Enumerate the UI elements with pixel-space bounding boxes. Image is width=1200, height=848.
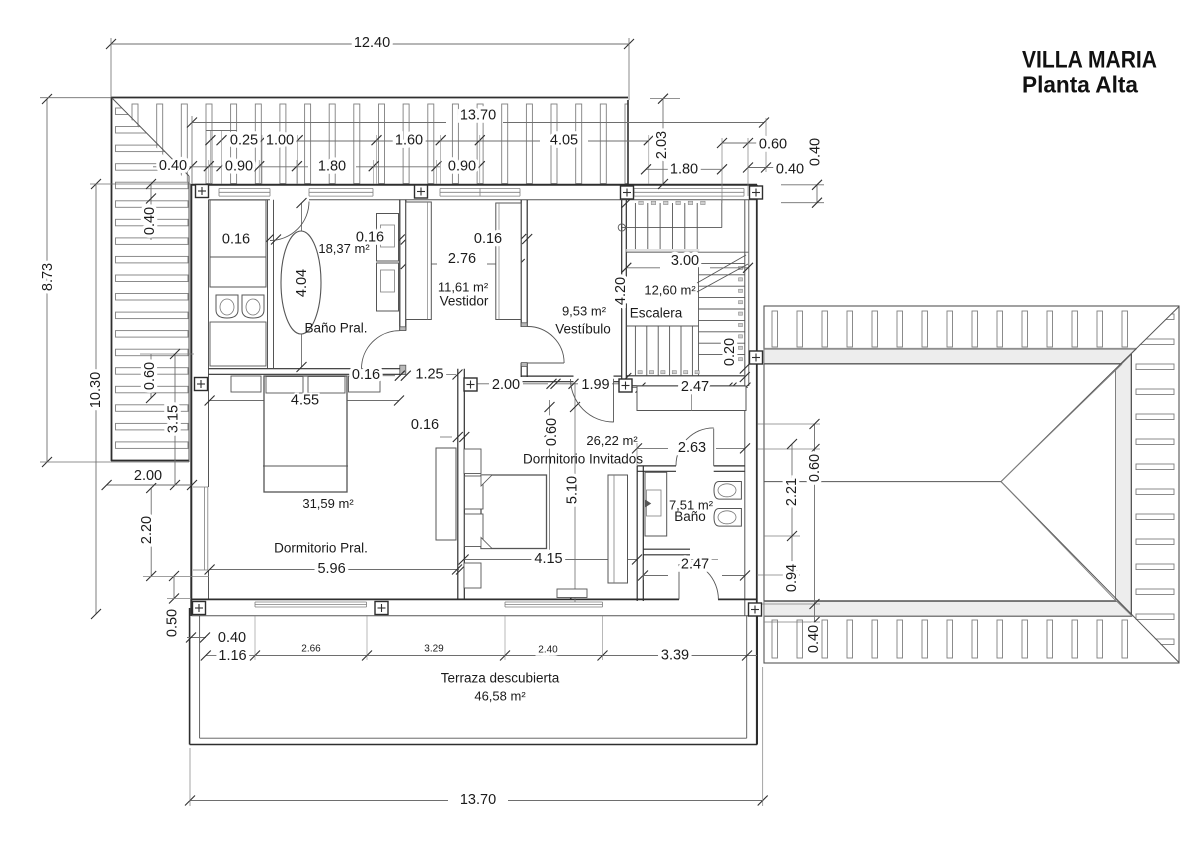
closet invitados north <box>637 386 746 411</box>
svg-text:0.40: 0.40 <box>159 158 187 174</box>
door vestibulo south <box>613 379 615 423</box>
svg-text:0.60: 0.60 <box>759 136 787 152</box>
wall banyo pral south <box>209 368 401 370</box>
svg-text:2.21: 2.21 <box>784 478 800 506</box>
dim 10.30 left <box>95 184 97 614</box>
svg-text:12.40: 12.40 <box>354 35 390 51</box>
survey boxes <box>196 185 209 198</box>
hip roof eaves gray strip top <box>764 349 1136 363</box>
svg-text:0.25: 0.25 <box>230 132 258 148</box>
svg-text:0.90: 0.90 <box>448 158 476 174</box>
svg-text:11,61 m²: 11,61 m² <box>438 279 489 294</box>
closet invitados east <box>608 475 628 583</box>
bench invitados south <box>557 589 587 598</box>
hip roof hips <box>1001 307 1179 482</box>
svg-text:0.60: 0.60 <box>807 454 823 482</box>
hip roof inner wall lines <box>764 363 1122 365</box>
door banyo pral north <box>270 202 309 241</box>
dim 0.16 / 1.25 row <box>377 375 395 377</box>
window south 1 <box>255 601 367 603</box>
svg-text:1.80: 1.80 <box>670 161 698 177</box>
banyo pral wc and bidet <box>216 295 238 318</box>
svg-text:0.60: 0.60 <box>544 418 560 446</box>
dim row1 north <box>206 130 237 132</box>
svg-text:1.25: 1.25 <box>415 367 443 383</box>
svg-text:4.55: 4.55 <box>291 393 319 409</box>
svg-text:Escalera: Escalera <box>630 306 683 321</box>
hip roof bottom joist band <box>772 620 1128 658</box>
dim 0.20 escalera wall <box>744 360 746 378</box>
wall vestibulo / escalera <box>621 200 623 386</box>
wall banyo guests south <box>643 548 690 550</box>
svg-text:4.05: 4.05 <box>550 132 578 148</box>
wall divider dormitorios <box>457 369 459 599</box>
svg-text:0.16: 0.16 <box>352 367 380 383</box>
dim 3.00 escalera <box>626 267 660 269</box>
window north 2 <box>309 188 373 190</box>
window west wall <box>193 487 208 570</box>
banyo pral vanity counter <box>210 200 266 257</box>
svg-text:1.99: 1.99 <box>581 377 609 393</box>
svg-text:1.00: 1.00 <box>266 132 294 148</box>
svg-text:2.66: 2.66 <box>301 644 321 655</box>
svg-text:1.60: 1.60 <box>395 132 423 148</box>
svg-text:Vestidor: Vestidor <box>440 294 489 309</box>
svg-text:31,59 m²: 31,59 m² <box>302 496 354 511</box>
nightstands dormitorio pral <box>231 376 261 392</box>
ext lines north dims <box>209 131 211 184</box>
bed dormitorio invitados <box>481 475 547 549</box>
wall escalera south <box>626 375 745 377</box>
hip roof outline (right) <box>764 306 1179 663</box>
vestidor closet west <box>406 202 432 320</box>
banyo pral shower column <box>377 214 399 262</box>
dim 5.10 invitados vertical <box>574 382 576 602</box>
svg-text:Dormitorio Invitados: Dormitorio Invitados <box>523 452 643 467</box>
svg-text:1.80: 1.80 <box>318 158 346 174</box>
svg-text:18,37 m²: 18,37 m² <box>318 241 370 256</box>
svg-text:8.73: 8.73 <box>40 263 56 291</box>
stair winder treads right <box>699 262 745 264</box>
svg-text:5.96: 5.96 <box>317 561 345 577</box>
svg-text:2.63: 2.63 <box>678 440 706 456</box>
dim 0.60 corridor vertical <box>549 400 551 556</box>
vanity partition banyo pral <box>267 200 269 368</box>
window north 1 <box>219 188 270 190</box>
svg-text:Vestíbulo: Vestíbulo <box>555 322 611 337</box>
wall banyo guests west <box>636 466 638 602</box>
svg-text:13.70: 13.70 <box>460 107 496 123</box>
dim 2.03 right top <box>662 99 664 184</box>
svg-text:Planta Alta: Planta Alta <box>1022 72 1138 98</box>
door terrace alcove <box>678 560 680 599</box>
svg-text:10.30: 10.30 <box>88 372 104 408</box>
hip roof ridge <box>764 481 1001 483</box>
svg-text:2.00: 2.00 <box>492 377 520 393</box>
roof overhang outline top-left <box>111 97 628 99</box>
roof miter diagonal top-left <box>112 98 190 177</box>
wall banyo pral / vestidor <box>399 200 401 331</box>
dim 3.15 left vertical <box>174 354 176 485</box>
window north 5 (escalera) <box>634 188 744 190</box>
svg-text:13.70: 13.70 <box>460 792 496 808</box>
svg-text:26,22 m²: 26,22 m² <box>586 433 638 448</box>
svg-text:Dormitorio Pral.: Dormitorio Pral. <box>274 541 368 556</box>
svg-text:3.15: 3.15 <box>165 405 181 433</box>
dim 2.00 left <box>107 484 192 486</box>
svg-text:3.39: 3.39 <box>661 647 689 663</box>
svg-text:12,60 m²: 12,60 m² <box>644 282 696 297</box>
vestidor closet east <box>496 203 521 320</box>
terraza parapet <box>189 608 191 745</box>
dim 0.40 left wall vertical <box>150 184 152 240</box>
svg-text:3.29: 3.29 <box>424 644 444 655</box>
dim 13.70 upper <box>192 122 446 124</box>
stair cut marks <box>697 255 746 283</box>
stair landing edge <box>626 249 699 252</box>
svg-text:0.40: 0.40 <box>776 162 804 178</box>
stair escalera upper flight treads <box>634 203 636 252</box>
svg-text:4.04: 4.04 <box>294 269 310 297</box>
banyo pral bathtub <box>281 231 321 334</box>
exterior wall south <box>192 598 680 600</box>
dim 8.73 left <box>46 99 48 462</box>
stair lower flight treads <box>626 325 698 327</box>
dim 2.76 vestidor <box>406 263 437 265</box>
stair handrail <box>622 227 722 229</box>
exterior wall west <box>190 184 192 616</box>
window south 2 <box>505 601 603 603</box>
svg-text:0.40: 0.40 <box>806 625 822 653</box>
hip roof top joist band <box>772 311 1128 347</box>
dim 0.50 left vertical <box>173 576 175 599</box>
svg-text:0.40: 0.40 <box>142 207 158 235</box>
svg-text:2.00: 2.00 <box>134 468 162 484</box>
door vestibulo west <box>527 362 564 364</box>
svg-text:VILLA MARIA: VILLA MARIA <box>1022 46 1157 73</box>
dim 12.40 top <box>111 43 352 45</box>
wall vestidor / vestibulo <box>520 200 522 327</box>
svg-text:2.76: 2.76 <box>448 251 476 267</box>
banyo guests wc and bidet <box>714 482 741 500</box>
window north 3 <box>440 188 520 190</box>
dim 2.63 banyo guests <box>637 447 668 449</box>
svg-text:9,53 m²: 9,53 m² <box>562 303 607 318</box>
svg-text:0.20: 0.20 <box>722 338 738 366</box>
exterior wall east <box>756 185 758 745</box>
roof overhang hatch, left band <box>116 108 189 448</box>
hip roof right joist band <box>1136 314 1174 645</box>
svg-text:0.60: 0.60 <box>142 362 158 390</box>
dim 2.20 left vertical <box>150 488 152 576</box>
svg-text:4.20: 4.20 <box>613 277 629 305</box>
svg-text:3.00: 3.00 <box>671 253 699 269</box>
wall banyo guests north <box>637 465 676 467</box>
dims right roof left side <box>758 423 821 425</box>
svg-text:Baño Pral.: Baño Pral. <box>304 321 367 336</box>
door banyo guests north <box>713 429 715 466</box>
svg-text:0.50: 0.50 <box>164 609 180 637</box>
dim 0.40 wall right (vertical) <box>781 184 824 186</box>
door jamb blocks banyo pral <box>400 327 406 331</box>
door banyo pral south <box>362 331 400 369</box>
svg-text:46,58 m²: 46,58 m² <box>474 688 526 703</box>
wall vestibulo south <box>521 375 573 377</box>
nightstands dormitorio invitados <box>464 449 481 474</box>
dim 2.47 banyo guests south <box>643 575 668 577</box>
svg-text:0.40: 0.40 <box>218 630 246 646</box>
dim 0.16 ticks banyo pral <box>252 239 264 241</box>
dim 4.20 escalera vertical <box>621 198 631 208</box>
svg-text:5.10: 5.10 <box>564 476 580 504</box>
svg-text:2.47: 2.47 <box>681 556 709 572</box>
svg-text:2.20: 2.20 <box>139 516 155 544</box>
svg-text:0.16: 0.16 <box>222 231 250 247</box>
dim 4.55 dormitorio pral <box>210 400 399 402</box>
hip roof eaves gray strip bottom <box>764 602 1132 617</box>
svg-text:Terraza descubierta: Terraza descubierta <box>441 671 560 686</box>
svg-text:0.40: 0.40 <box>807 138 823 166</box>
svg-text:Baño: Baño <box>674 509 706 524</box>
svg-text:0.16: 0.16 <box>411 417 439 433</box>
svg-text:1.16: 1.16 <box>218 648 246 664</box>
svg-text:4.15: 4.15 <box>534 551 562 567</box>
door jamb blocks vestibulo west <box>521 323 527 327</box>
svg-text:2.40: 2.40 <box>538 645 558 656</box>
dresser dormitorio pral <box>436 448 456 540</box>
svg-text:0.94: 0.94 <box>784 564 800 592</box>
hip roof eaves gray strip right <box>1116 355 1132 615</box>
svg-text:2.47: 2.47 <box>681 379 709 395</box>
dim row windows south <box>255 655 757 657</box>
dim 1.80 / 0.60 / 0.40 right top <box>646 168 722 170</box>
roof overhang hatch, top band <box>132 104 631 184</box>
bed dormitorio pral <box>264 376 347 492</box>
dim 13.70 bottom <box>190 800 448 802</box>
svg-text:2.03: 2.03 <box>654 131 670 159</box>
dim 4.15 invitados <box>464 559 637 561</box>
dim 0.40 / 1.16 bottom left <box>187 637 206 639</box>
banyo guests shower <box>645 472 667 536</box>
dim 0.60 left window vertical <box>150 354 152 398</box>
dim 5.96 dormitorio pral <box>210 569 459 571</box>
svg-text:0.16: 0.16 <box>474 231 502 247</box>
dim 0.16 divider ticks <box>440 436 452 438</box>
svg-text:0.90: 0.90 <box>225 158 253 174</box>
dim 4.04 banyo pral vertical <box>301 203 303 367</box>
dim 2.00 / 1.99 / 2.47 corridor row <box>477 383 489 385</box>
exterior wall north <box>192 184 758 186</box>
dim row2 north <box>153 166 221 168</box>
